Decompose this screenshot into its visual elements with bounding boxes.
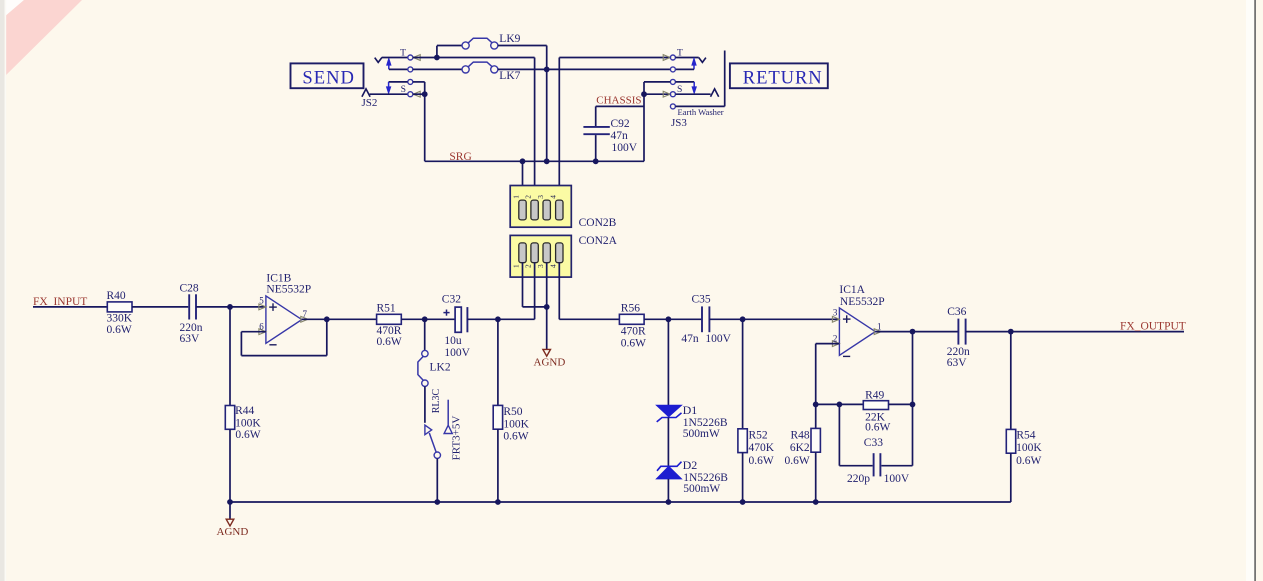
svg-text:220p: 220p	[847, 473, 870, 485]
connector CON2B pin 3 pad	[543, 200, 550, 220]
node JS2 T junction	[434, 55, 440, 61]
node AGND mid junction	[544, 304, 550, 310]
svg-text:CON2B: CON2B	[579, 217, 617, 229]
svg-text:0.6W: 0.6W	[1016, 455, 1041, 467]
wire D1 to D2	[667, 418, 669, 467]
connector CON2A body	[510, 235, 571, 277]
wire IC1A output	[875, 331, 958, 333]
wire LK2 to relay contact	[424, 386, 426, 422]
svg-text:LK7: LK7	[499, 70, 520, 82]
wire JS2 T stub	[382, 57, 408, 59]
wire IC1A feedback to R48 node	[816, 343, 840, 345]
connector CON2B pin 1 pad	[519, 200, 526, 220]
wire FX_INPUT to R40	[33, 306, 107, 308]
capacitor C32 polarized	[455, 307, 461, 332]
svg-text:100V: 100V	[444, 347, 470, 359]
wire JS2 T to junction	[413, 57, 437, 59]
node LK7 junction	[544, 67, 550, 73]
jack JS2 contact T	[408, 55, 413, 60]
wire R48 to rail	[815, 452, 817, 502]
svg-text:0.6W: 0.6W	[107, 324, 132, 336]
resistor R40 body	[107, 302, 132, 312]
svg-text:FX_INPUT: FX_INPUT	[33, 296, 87, 308]
wire CON2B pin4 to JS3 T	[558, 58, 560, 201]
svg-text:220n: 220n	[180, 322, 203, 334]
jack JS3 sleeve make arrow	[676, 81, 695, 83]
svg-text:4: 4	[548, 195, 557, 199]
jack JS3 contact S-normal	[670, 79, 675, 84]
wire R51 to LK2 node	[401, 318, 424, 320]
wire AGND stub bottom	[229, 502, 231, 519]
wire CON2A pin1 to AGND node	[522, 262, 524, 307]
svg-text:470K: 470K	[749, 442, 775, 454]
pin arrow IC1B out	[301, 316, 308, 322]
ground AGND symbol	[226, 519, 234, 526]
svg-text:10u: 10u	[444, 335, 462, 347]
svg-text:0.6W: 0.6W	[621, 338, 646, 350]
svg-text:R48: R48	[791, 429, 810, 441]
wire JS2 T to CON2B pin 2	[437, 57, 535, 59]
svg-text:FX_OUTPUT: FX_OUTPUT	[1120, 321, 1186, 333]
svg-text:100K: 100K	[235, 417, 261, 429]
jack JS2 sleeve chevron	[362, 89, 370, 97]
node feedback R48	[813, 402, 819, 408]
jack JS3 tip chevron	[699, 58, 706, 63]
node LK2 branch	[422, 316, 428, 322]
svg-text:S: S	[677, 84, 682, 95]
capacitor C35 plates	[701, 306, 703, 332]
node rail R44	[227, 499, 233, 505]
wire AGND stub mid	[546, 307, 548, 350]
svg-text:1: 1	[512, 195, 521, 199]
svg-text:470R: 470R	[621, 326, 646, 338]
connector SEND box	[291, 63, 364, 88]
svg-text:500mW: 500mW	[683, 483, 720, 495]
svg-text:3: 3	[536, 264, 545, 268]
node rail R50	[495, 499, 501, 505]
wire R40 to C28	[132, 306, 188, 308]
svg-text:LK9: LK9	[499, 33, 520, 45]
svg-text:1: 1	[877, 321, 882, 331]
svg-text:RL3C: RL3C	[431, 388, 442, 413]
connector CON2B pin 2 pad	[531, 200, 538, 220]
link LK9	[462, 42, 469, 49]
svg-text:63V: 63V	[947, 357, 968, 369]
jack JS2 tip chevron	[375, 58, 382, 63]
connector CON2B body	[510, 186, 571, 228]
node rail R48	[813, 499, 819, 505]
svg-text:JS3: JS3	[671, 117, 687, 129]
link LK7	[462, 66, 469, 73]
wire C32 to R50 node	[467, 318, 534, 320]
svg-text:C92: C92	[611, 118, 630, 130]
wire CON2A pin4 to R56	[558, 262, 560, 319]
wire R49 to output node	[889, 403, 913, 405]
resistor R50 body	[493, 405, 502, 429]
pin arrow IC1B -in	[259, 329, 266, 335]
node C33 right branch	[910, 402, 916, 408]
svg-text:C35: C35	[692, 294, 711, 306]
wire CON2A pin3 to AGND node	[546, 262, 548, 307]
ground AGND symbol	[543, 349, 551, 356]
wire C33 left leg	[838, 404, 840, 465]
wire CHASSIS net stub	[596, 105, 644, 107]
svg-text:2: 2	[524, 195, 533, 199]
pin arrow IC1B +in	[259, 304, 266, 310]
svg-text:R52: R52	[749, 429, 768, 441]
wire feedback to R49	[816, 403, 864, 405]
svg-text:S: S	[401, 84, 406, 95]
op-amp IC1B	[266, 296, 302, 343]
svg-text:5: 5	[259, 295, 264, 305]
svg-text:47n: 47n	[681, 333, 699, 345]
wire D2 to rail	[667, 479, 669, 502]
resistor R54 body	[1006, 429, 1015, 453]
node SRG C92	[593, 158, 599, 164]
svg-text:CON2A: CON2A	[579, 235, 618, 247]
svg-text:2: 2	[833, 333, 838, 343]
svg-text:AGND: AGND	[534, 356, 566, 368]
jack JS3 tip make arrow	[692, 58, 696, 65]
jack JS2 contact S-normal	[408, 79, 413, 84]
svg-text:R56: R56	[621, 302, 640, 314]
capacitor C36 plates	[957, 319, 959, 345]
diode D1 zener	[656, 405, 681, 416]
wire JS2 S-normal to S junction	[413, 81, 425, 83]
jack JS3 contact S	[670, 92, 675, 97]
wire C28 to IC1B input	[196, 306, 266, 308]
jack JS3 contact earth washer	[670, 104, 675, 109]
node D1 branch	[666, 316, 672, 322]
svg-text:0.6W: 0.6W	[865, 421, 890, 433]
node R52 branch	[740, 316, 746, 322]
svg-text:CHASSIS: CHASSIS	[596, 94, 641, 106]
wire R52 to rail	[742, 453, 744, 502]
svg-text:100V: 100V	[884, 473, 910, 485]
jack JS3 sleeve chevron	[711, 89, 719, 97]
capacitor C92	[595, 106, 597, 126]
svg-text:100K: 100K	[503, 418, 529, 430]
relay RL3C arm	[429, 433, 436, 452]
node rail relay	[434, 499, 440, 505]
svg-text:R50: R50	[503, 406, 522, 418]
op-amp IC1A	[839, 308, 875, 355]
svg-text:R54: R54	[1016, 429, 1035, 441]
connector CON2A pin 3 pad	[543, 243, 550, 263]
wire C33 right leg	[881, 465, 912, 467]
wire output node down	[912, 332, 914, 405]
svg-text:0.6W: 0.6W	[235, 429, 260, 441]
svg-text:NE5532P: NE5532P	[266, 283, 311, 295]
svg-text:NE5532P: NE5532P	[840, 296, 885, 308]
jack JS2 tip make arrow	[387, 58, 391, 65]
wire D1 branch	[667, 319, 669, 405]
wire C35 to IC1A	[709, 318, 839, 320]
wire JS3 T stub	[676, 57, 699, 59]
pin arrow IC1A +in	[832, 316, 839, 322]
wire CON2A pin2 to main line	[534, 262, 536, 319]
C32 plus sign	[443, 312, 449, 314]
svg-text:500mW: 500mW	[683, 428, 720, 440]
svg-text:100K: 100K	[1016, 442, 1042, 454]
wire LK2 branch	[424, 319, 426, 351]
wire ground rail	[230, 501, 1011, 503]
svg-text:C33: C33	[864, 437, 883, 449]
svg-text:330K: 330K	[107, 313, 133, 325]
pin arrow IC1A -in	[832, 341, 839, 347]
wire JS3 S stub	[676, 93, 711, 95]
node CHASSIS junction	[641, 91, 647, 97]
wire relay to rail	[436, 458, 438, 502]
wire JS2 ring to LK7	[389, 68, 408, 70]
svg-text:D1: D1	[683, 403, 698, 417]
svg-text:100V: 100V	[705, 333, 731, 345]
svg-text:0.6W: 0.6W	[503, 431, 528, 443]
connector CON2A pin 4 pad	[556, 243, 563, 263]
wire R54 branch	[1010, 332, 1012, 430]
svg-text:0.6W: 0.6W	[749, 455, 774, 467]
jack JS3 contact ring	[670, 67, 675, 72]
node rail D2	[666, 499, 672, 505]
wire LK7 junction to SRG	[546, 69, 548, 161]
wire CON2B pin1 from SRG	[522, 161, 524, 200]
svg-text:47n: 47n	[611, 130, 629, 142]
svg-text:6: 6	[259, 321, 264, 331]
node JS2 S junction	[422, 91, 428, 97]
svg-text:100V: 100V	[612, 142, 638, 154]
jack JS2 contact ring	[408, 67, 413, 72]
connector CON2A pin 2 pad	[531, 243, 538, 263]
svg-text:FRT3+5V: FRT3+5V	[451, 416, 463, 461]
node rail R52	[740, 499, 746, 505]
svg-text:LK2: LK2	[430, 362, 451, 374]
wire C36 to FX_OUTPUT	[966, 331, 1184, 333]
svg-text:6K2: 6K2	[790, 442, 810, 454]
svg-text:3: 3	[833, 308, 838, 318]
connector RETURN box	[730, 63, 828, 88]
svg-text:63V: 63V	[180, 333, 201, 345]
resistor R49 body	[863, 401, 888, 410]
diode D2 zener	[657, 462, 682, 471]
resistor R44 body	[225, 406, 234, 430]
wire R48 branch	[815, 404, 817, 428]
svg-text:C28: C28	[180, 283, 199, 295]
wire CHASSIS junction to JS3 S	[644, 93, 670, 95]
wire R54 to rail	[1010, 453, 1012, 502]
pin arrow JS2 T	[413, 55, 420, 61]
connector CON2B pin 4 pad	[556, 200, 563, 220]
relay RL3C actuator	[447, 400, 449, 425]
svg-text:0.6W: 0.6W	[784, 455, 809, 467]
svg-text:D2: D2	[683, 458, 698, 472]
wire junction up to LK9	[436, 46, 438, 58]
link LK2	[422, 350, 428, 356]
pin arrow JS3 S	[663, 91, 670, 97]
wire IC1B output	[302, 318, 327, 320]
wire IC1B out to R51	[327, 318, 377, 320]
wire R44 to rail	[229, 429, 231, 502]
wire LK7 line to JS3 ring	[498, 68, 671, 70]
wire JS2 S stub	[370, 93, 408, 95]
svg-text:R40: R40	[107, 290, 126, 302]
resistor R56 body	[619, 314, 644, 324]
jack JS2 contact S	[408, 92, 413, 97]
pin arrow IC1A out	[874, 329, 881, 335]
svg-text:R49: R49	[865, 389, 884, 401]
wire JS3 S-normal to CHASSIS junction	[644, 81, 670, 83]
svg-text:C36: C36	[947, 306, 966, 318]
node IC1B output junction	[324, 316, 330, 322]
node IC1A output junction	[910, 329, 916, 335]
svg-text:JS2: JS2	[362, 97, 378, 109]
connector CON2A pin 1 pad	[519, 243, 526, 263]
node R44 branch	[227, 304, 233, 310]
svg-text:C32: C32	[442, 294, 461, 306]
svg-text:AGND: AGND	[217, 526, 249, 538]
wire JS2 S down to SRG rail	[424, 94, 426, 161]
wire LK9 to LK7 line	[498, 45, 547, 47]
node R50 branch	[495, 316, 501, 322]
svg-text:SEND: SEND	[302, 68, 355, 89]
resistor R51 body	[377, 314, 402, 324]
node C33 left branch	[837, 402, 843, 408]
svg-text:1: 1	[512, 264, 521, 268]
capacitor C28 plates	[188, 294, 190, 319]
resistor R48 body	[811, 428, 820, 452]
pin arrow JS3 T	[663, 55, 670, 61]
wire to C32	[425, 318, 455, 320]
svg-text:IC1A: IC1A	[839, 284, 865, 296]
wire R44 branch down	[229, 307, 231, 406]
capacitor C33	[873, 453, 875, 476]
svg-text:Earth Washer: Earth Washer	[678, 107, 724, 117]
svg-text:3: 3	[536, 195, 545, 199]
node SRG pin1	[520, 158, 526, 164]
svg-text:4: 4	[548, 264, 557, 268]
node SRG pin3	[544, 158, 550, 164]
svg-text:R51: R51	[377, 303, 396, 315]
wire IC1B feedback	[326, 319, 328, 355]
wire R50 to rail	[497, 429, 499, 502]
wire CHASSIS vertical to SRG	[643, 94, 645, 161]
svg-text:T: T	[400, 47, 406, 58]
wire JS3 earth washer	[676, 105, 725, 107]
jack JS2 sleeve make arrow	[389, 81, 408, 83]
wire R56 to C35	[644, 318, 702, 320]
pin arrow JS2 S	[413, 91, 420, 97]
wire R52 branch	[742, 319, 744, 429]
wire JS3 ring stub	[676, 68, 695, 70]
relay RL3C contact	[425, 425, 432, 435]
svg-text:RETURN: RETURN	[743, 68, 823, 89]
svg-text:0.6W: 0.6W	[377, 336, 402, 348]
jack JS3 contact T	[670, 55, 675, 60]
svg-text:7: 7	[303, 309, 308, 319]
resistor R52 body	[738, 429, 747, 453]
svg-text:2: 2	[524, 264, 533, 268]
wire SRG rail	[425, 160, 644, 162]
node R54 branch	[1008, 329, 1014, 335]
svg-text:R44: R44	[235, 405, 254, 417]
wire R50 branch	[497, 319, 499, 405]
